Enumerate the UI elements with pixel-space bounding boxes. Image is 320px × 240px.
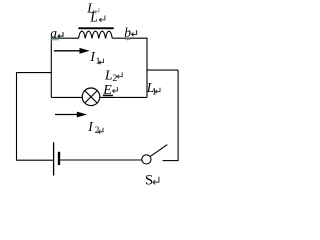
pilcrow mark after L1 bbox=[95, 8, 99, 14]
green squiggle under b bbox=[125, 38, 130, 40]
svg-text:a: a bbox=[50, 25, 57, 40]
pilcrow mark after L1 bbox=[155, 88, 160, 94]
iron core bar bbox=[78, 27, 113, 29]
current arrow I2 bbox=[55, 114, 78, 116]
wire outer left vertical bbox=[16, 72, 18, 161]
wire lamp row right bbox=[100, 96, 147, 98]
wire lamp row left bbox=[51, 96, 82, 98]
wire inner right vertical bbox=[146, 38, 148, 98]
svg-text:2: 2 bbox=[112, 73, 117, 84]
pilcrow mark after a bbox=[58, 32, 63, 38]
wire right stub to outer loop bbox=[147, 69, 178, 71]
wire coil to node b corner bbox=[112, 37, 147, 39]
pilcrow mark after E bbox=[113, 87, 118, 93]
wire top-left lead a to coil bbox=[51, 37, 78, 39]
svg-text:b: b bbox=[124, 25, 131, 40]
battery short plate bbox=[58, 152, 60, 165]
wire battery to switch bbox=[60, 159, 142, 161]
current arrow I1 bbox=[54, 50, 80, 52]
svg-text:L: L bbox=[89, 10, 98, 25]
pilcrow mark after S bbox=[153, 177, 159, 185]
lamp L2 bbox=[82, 88, 100, 106]
pilcrow mark after I1 bbox=[99, 59, 104, 65]
pilcrow mark after b bbox=[132, 30, 137, 36]
pilcrow mark after I2 bbox=[98, 128, 103, 134]
battery long plate bbox=[53, 142, 55, 175]
green squiggle under a bbox=[51, 39, 59, 41]
switch right contact stub bbox=[163, 160, 179, 162]
wire left stub to outer loop bbox=[17, 72, 52, 74]
switch S pivot circle bbox=[142, 155, 151, 164]
wire bottom left to battery bbox=[16, 159, 54, 161]
pilcrow mark after L2 bbox=[117, 72, 122, 78]
svg-text:S: S bbox=[145, 173, 153, 189]
inductor L coil bbox=[79, 31, 113, 38]
switch S lever bbox=[151, 145, 168, 157]
svg-text:L: L bbox=[104, 67, 113, 82]
wire inner left vertical bbox=[50, 38, 52, 98]
wire outer right vertical bbox=[177, 70, 179, 161]
pilcrow mark after L2line bbox=[99, 16, 105, 22]
